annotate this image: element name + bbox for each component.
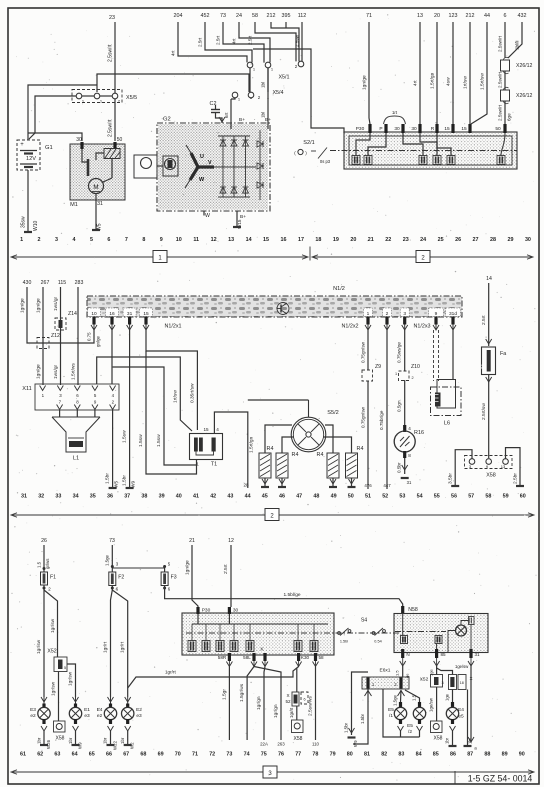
svg-text:2.5sw/ws: 2.5sw/ws	[308, 696, 314, 716]
svg-text:46: 46	[279, 494, 285, 500]
solder joint Z10	[395, 364, 420, 381]
svg-text:2.5sw/rt: 2.5sw/rt	[108, 44, 114, 62]
lamp E5/1	[388, 702, 407, 737]
svg-text:5: 5	[90, 237, 93, 243]
svg-text:90: 90	[519, 752, 525, 758]
wire N1/2x2 pin 2 to terminal 52	[379, 330, 391, 489]
lamp E1 e3	[69, 704, 90, 732]
svg-text:X52: X52	[47, 649, 56, 655]
section 2 dimension line with sheet box 2	[11, 509, 534, 521]
svg-text:e3: e3	[84, 713, 90, 719]
svg-text:60: 60	[520, 494, 526, 500]
wire lamp E2 to ground W2	[120, 731, 135, 749]
svg-text:R: R	[431, 126, 435, 132]
wire N1/2x2 pin 1 through Z9 to terminal 51	[361, 330, 373, 489]
svg-text:0.75gn/sw: 0.75gn/sw	[361, 406, 366, 428]
relay N58	[394, 606, 488, 653]
wire 21 to switch P30	[185, 545, 199, 607]
wire E6x1 pin 1 to ground W9 terminal 80	[344, 672, 369, 747]
svg-text:1gr/sw: 1gr/sw	[51, 681, 57, 696]
wire battery positive to starter and X5/5	[28, 74, 249, 141]
svg-text:44: 44	[484, 13, 490, 19]
wire 212 to ignition 15	[463, 22, 471, 124]
wire 123 to ignition 15	[446, 22, 454, 124]
svg-text:17: 17	[298, 237, 304, 243]
wire N1/2x1 15 to coil terminal 15	[138, 330, 197, 474]
svg-text:58L: 58L	[243, 655, 251, 660]
wire E6x1 to lamp E5/2	[405, 690, 420, 702]
svg-text:57: 57	[468, 494, 474, 500]
svg-text:1gn/ge: 1gn/ge	[20, 298, 26, 313]
svg-text:1.5bl: 1.5bl	[340, 640, 348, 644]
connector X52 middle	[285, 692, 308, 706]
svg-text:2.5rt: 2.5rt	[481, 315, 487, 325]
wire lamp E1 to ground W9	[68, 731, 83, 749]
wire K30 to connector X52 middle	[296, 668, 298, 692]
svg-text:/1: /1	[389, 713, 393, 719]
svg-text:1-5 GZ 54- 0014: 1-5 GZ 54- 0014	[468, 774, 533, 784]
svg-text:R4: R4	[317, 452, 324, 458]
svg-text:4: 4	[72, 237, 75, 243]
svg-text:Z12: Z12	[51, 333, 60, 339]
svg-text:74: 74	[244, 752, 250, 758]
control unit N1/2	[87, 286, 462, 317]
svg-text:L1: L1	[73, 456, 79, 462]
wire F2 branch to lamp E2	[112, 590, 130, 704]
svg-text:1br: 1br	[37, 737, 42, 744]
svg-text:P: P	[379, 126, 382, 132]
svg-text:212: 212	[466, 13, 475, 19]
svg-text:R16: R16	[414, 430, 424, 436]
svg-text:40: 40	[176, 494, 182, 500]
svg-text:432: 432	[518, 13, 527, 19]
svg-text:13: 13	[228, 237, 234, 243]
wire X52 to X58 pin 3	[51, 672, 59, 722]
svg-text:212: 212	[267, 13, 276, 19]
svg-text:1br: 1br	[68, 737, 73, 744]
svg-text:1.5: 1.5	[395, 670, 400, 676]
wire X5/5 to starter terminal 50	[108, 99, 116, 141]
svg-text:1gr/sw: 1gr/sw	[36, 639, 42, 654]
svg-text:F1: F1	[50, 575, 56, 581]
svg-text:37: 37	[124, 494, 130, 500]
svg-text:2.5rt: 2.5rt	[248, 35, 253, 45]
svg-text:15: 15	[263, 237, 269, 243]
svg-text:112: 112	[298, 13, 307, 19]
svg-text:2.5rt: 2.5rt	[198, 37, 203, 47]
svg-text:3.5br: 3.5br	[448, 473, 454, 484]
svg-text:1.5gr: 1.5gr	[222, 689, 228, 700]
svg-text:85: 85	[433, 752, 439, 758]
instrument S5/2	[291, 400, 339, 452]
wire N1/2x2 pin 3 through Z10 to R16	[397, 330, 405, 425]
section 1 dimension line with sheet boxes 1 and 2	[11, 247, 533, 263]
wire fuse Fa to X58 pin 9	[481, 375, 492, 459]
svg-text:204: 204	[174, 13, 183, 19]
svg-text:R4: R4	[267, 446, 274, 452]
wire 44 joining 15	[471, 22, 487, 124]
wire N1/2x3 pin 9 shielded pair to L6	[434, 326, 439, 381]
svg-text:N1/2x3: N1/2x3	[413, 324, 430, 330]
svg-text:Z9: Z9	[375, 364, 381, 370]
svg-text:6: 6	[303, 698, 305, 702]
svg-text:21: 21	[368, 237, 374, 243]
svg-text:N1/2: N1/2	[333, 286, 345, 292]
svg-text:2.5sw/rt: 2.5sw/rt	[108, 119, 114, 137]
svg-text:32: 32	[38, 494, 44, 500]
svg-text:47: 47	[296, 494, 302, 500]
svg-text:50: 50	[495, 126, 501, 132]
svg-text:2: 2	[38, 237, 41, 243]
svg-text:V: V	[208, 160, 212, 166]
wire 204 to X5/1	[171, 22, 248, 62]
svg-text:0s p3: 0s p3	[320, 159, 331, 164]
wire N1/2x3 pin 31d to L6	[452, 330, 454, 379]
wire 283 to X11 pin 6	[71, 287, 79, 385]
svg-text:1gr/gn: 1gr/gn	[256, 696, 262, 710]
svg-text:26: 26	[41, 538, 47, 544]
svg-text:52: 52	[382, 494, 388, 500]
svg-text:2.5sw/rt: 2.5sw/rt	[498, 35, 503, 52]
svg-text:263: 263	[277, 742, 285, 747]
alternator G2	[157, 117, 270, 212]
svg-text:e2: e2	[30, 713, 36, 719]
svg-text:16: 16	[281, 237, 287, 243]
svg-text:395: 395	[282, 13, 291, 19]
svg-text:4rt: 4rt	[232, 38, 237, 44]
wire X52 to X58 middle	[289, 706, 297, 720]
svg-text:1bl: 1bl	[261, 82, 266, 88]
wire X11 pin 5 to coil primary 1rt/sw	[97, 357, 192, 431]
connector X5/5	[72, 90, 137, 104]
svg-text:1bl: 1bl	[261, 112, 266, 118]
svg-text:5: 5	[64, 666, 66, 670]
svg-text:E4: E4	[458, 707, 464, 713]
svg-text:88: 88	[484, 752, 490, 758]
svg-text:73: 73	[109, 538, 115, 544]
connector X26/12 lower	[501, 87, 533, 103]
svg-text:0.54: 0.54	[374, 640, 381, 644]
alternator stator windings U V W	[185, 145, 214, 188]
svg-text:E5: E5	[388, 707, 394, 713]
svg-text:Fa: Fa	[500, 351, 506, 357]
svg-text:41: 41	[193, 494, 199, 500]
svg-text:1.5sw: 1.5sw	[122, 430, 128, 443]
svg-text:34: 34	[73, 494, 79, 500]
wire X58 pin 13 to ground terminal 60	[506, 448, 525, 486]
svg-text:2: 2	[411, 376, 413, 380]
svg-text:43: 43	[227, 494, 233, 500]
svg-text:X52: X52	[420, 677, 429, 683]
svg-text:1gr/rt: 1gr/rt	[103, 641, 109, 653]
svg-text:15: 15	[143, 311, 149, 317]
svg-text:0.75: 0.75	[87, 332, 92, 341]
wire F1 branch to X52	[44, 590, 58, 657]
svg-text:F2: F2	[118, 575, 124, 581]
svg-text:1gn/ge: 1gn/ge	[362, 75, 368, 90]
wire X 18 to ground	[464, 690, 473, 747]
svg-text:+: +	[20, 142, 24, 148]
wire N58 31 to terminal 87	[468, 666, 477, 751]
section 3 dimension line with sheet box 3	[11, 766, 534, 778]
solder joint Z12	[37, 333, 60, 349]
wire lamp E4 e5 to ground	[445, 731, 457, 746]
wire F1 to lamp E3	[36, 590, 47, 704]
svg-text:E6x1: E6x1	[380, 668, 391, 674]
sensor R16	[394, 425, 424, 458]
svg-text:123: 123	[449, 13, 458, 19]
wire X5/1 to X5/4 and B+ drops	[231, 68, 268, 99]
svg-text:59: 59	[503, 494, 509, 500]
svg-text:71: 71	[192, 752, 198, 758]
svg-text:27: 27	[473, 237, 479, 243]
lamp E5/2	[407, 702, 426, 737]
svg-text:1.5: 1.5	[412, 694, 417, 701]
svg-text:gn/ge: gn/ge	[96, 335, 101, 347]
resistor R4 a	[259, 425, 292, 487]
wire X52 branch to lamp E1	[67, 664, 79, 704]
svg-text:30: 30	[233, 608, 239, 614]
wire 14 to fuse Fa	[481, 283, 492, 346]
svg-text:1: 1	[395, 372, 397, 376]
wire alternator W stub	[203, 211, 205, 216]
svg-text:W10: W10	[33, 221, 39, 232]
svg-text:1gr/sw: 1gr/sw	[50, 618, 56, 633]
svg-text:8: 8	[408, 453, 411, 458]
svg-text:54: 54	[417, 494, 423, 500]
svg-text:64: 64	[72, 752, 78, 758]
lamp inside N58	[448, 617, 474, 653]
svg-text:1gn/ge: 1gn/ge	[36, 298, 42, 313]
resistor R4 d	[323, 437, 363, 487]
svg-text:1: 1	[367, 311, 370, 317]
svg-text:P30: P30	[202, 608, 211, 614]
wire 71 to P30	[362, 22, 371, 124]
resistor R4 b	[276, 437, 298, 487]
svg-text:14: 14	[246, 237, 252, 243]
svg-text:W: W	[205, 213, 210, 219]
wire alternator B+ up 1bl	[261, 68, 269, 129]
svg-text:39: 39	[159, 494, 165, 500]
section 3 terminal number row 61-90	[20, 752, 525, 758]
svg-text:1rt/sw: 1rt/sw	[173, 390, 179, 403]
svg-text:430: 430	[23, 280, 32, 286]
wire 115 through Z14 to X11 pin 3	[53, 287, 61, 385]
svg-text:89: 89	[502, 752, 508, 758]
svg-text:1br: 1br	[103, 737, 108, 744]
svg-text:85: 85	[440, 652, 446, 657]
wire X5/1 area to ignition 30 feed	[253, 49, 344, 133]
svg-text:X26/12: X26/12	[516, 93, 533, 99]
svg-text:58R: 58R	[218, 655, 227, 660]
svg-text:1ge/sw: 1ge/sw	[429, 697, 434, 712]
wire 6 with inline connectors X26/12	[498, 22, 506, 58]
connector X52 right	[420, 675, 444, 688]
svg-text:82: 82	[381, 752, 387, 758]
wire K to terminal 75	[256, 667, 268, 747]
svg-text:61: 61	[20, 752, 26, 758]
svg-text:30: 30	[525, 237, 531, 243]
svg-text:66: 66	[106, 752, 112, 758]
svg-text:N58: N58	[408, 607, 418, 613]
wire R16 to ground terminal 53	[397, 458, 412, 485]
svg-text:51: 51	[365, 494, 371, 500]
svg-text:77: 77	[295, 752, 301, 758]
svg-text:E4: E4	[97, 707, 103, 713]
wire 13 to ignition 30	[413, 22, 421, 124]
svg-text:X58: X58	[486, 473, 496, 479]
lamp E4 e5	[446, 702, 464, 731]
svg-text:Z14: Z14	[68, 311, 77, 317]
transistor symbol inside N1/2	[277, 303, 289, 315]
svg-text:gr/ws: gr/ws	[45, 558, 50, 569]
svg-text:69: 69	[158, 752, 164, 758]
svg-text:T1: T1	[211, 462, 217, 468]
svg-text:283: 283	[75, 280, 84, 286]
svg-text:M: M	[93, 184, 98, 191]
ignition coil T1	[190, 427, 223, 468]
svg-text:3: 3	[403, 311, 406, 317]
alternator rotor slip rings	[134, 155, 178, 178]
svg-text:2.5rt/sw: 2.5rt/sw	[481, 403, 487, 420]
svg-text:14: 14	[486, 276, 492, 282]
wire S5/2 to coil wire junction	[248, 399, 309, 401]
wire 112 to X5/1 pin 2	[295, 22, 303, 61]
wire K30 to lamp E2 run	[128, 667, 299, 689]
wire X11 pin 2 to ground terminal 36	[105, 410, 120, 488]
branch node 6 after F2	[111, 586, 119, 592]
svg-text:1.5br: 1.5br	[344, 722, 349, 733]
svg-text:87: 87	[467, 752, 473, 758]
svg-text:28: 28	[243, 483, 249, 488]
svg-text:2.5br: 2.5br	[513, 473, 519, 484]
wire 58 to X5/1 pin 2	[248, 22, 297, 61]
svg-text:9: 9	[435, 311, 438, 317]
svg-text:0.75br/ge: 0.75br/ge	[379, 410, 384, 430]
svg-text:K30: K30	[301, 655, 310, 660]
connector X26/12 upper	[501, 57, 533, 73]
svg-text:M1: M1	[70, 202, 78, 208]
svg-text:55: 55	[434, 494, 440, 500]
wire N58 85 to connector X52 right	[429, 666, 437, 676]
wire link F2 to F3	[112, 567, 164, 569]
wire 212 to X5/1 pin 2	[271, 22, 299, 61]
svg-text:62: 62	[37, 752, 43, 758]
wire F3 to relay N58 1.5bl/ge	[165, 586, 403, 608]
svg-text:1: 1	[20, 237, 23, 243]
svg-text:Z10: Z10	[411, 364, 420, 370]
svg-text:8: 8	[142, 237, 145, 243]
wire lamp return bus	[383, 689, 420, 737]
svg-text:36: 36	[107, 494, 113, 500]
wire F2 to lamp E4	[103, 590, 114, 704]
connector X58 right	[431, 721, 443, 742]
svg-text:E1: E1	[84, 707, 90, 713]
wire E6x1 pin 2 to lamp E5/1	[393, 690, 402, 706]
svg-text:1br: 1br	[120, 737, 125, 744]
svg-text:1.5br: 1.5br	[360, 713, 365, 724]
svg-text:1.5ge: 1.5ge	[105, 554, 110, 566]
svg-text:476: 476	[364, 483, 372, 488]
svg-text:1.5sw: 1.5sw	[138, 434, 144, 447]
svg-text:4: 4	[408, 426, 411, 431]
svg-text:48: 48	[313, 494, 319, 500]
wire lamp E4 to ground W22	[103, 731, 118, 750]
svg-text:84: 84	[416, 752, 422, 758]
svg-text:81: 81	[364, 752, 370, 758]
svg-text:P30: P30	[356, 126, 365, 132]
wire lamp E3 to ground W26	[37, 731, 52, 749]
svg-text:1.5gr/ws: 1.5gr/ws	[239, 683, 245, 702]
svg-text:N1/2x2: N1/2x2	[341, 324, 358, 330]
svg-text:0.75gn/sw: 0.75gn/sw	[361, 341, 366, 363]
svg-text:1.5rt/gn: 1.5rt/gn	[430, 72, 436, 89]
svg-text:73: 73	[226, 752, 232, 758]
svg-text:19: 19	[333, 237, 339, 243]
relay N58 output terminals N 85 31	[400, 649, 480, 666]
wire starter 31 to ground W5	[92, 194, 103, 232]
svg-text:N: N	[406, 652, 409, 657]
svg-text:15: 15	[461, 126, 467, 132]
svg-text:267: 267	[41, 280, 50, 286]
wire X 7 to lamp E4 e5	[445, 690, 453, 703]
svg-text:R4: R4	[292, 452, 299, 458]
svg-text:X58: X58	[294, 736, 303, 742]
svg-text:3: 3	[55, 237, 58, 243]
svg-text:31: 31	[474, 652, 480, 657]
wire N1/2x1 16 to X11 pin 4 and coil terminal 1	[112, 330, 197, 465]
svg-text:12: 12	[228, 538, 234, 544]
wire battery negative to terminal 1 with ground W10	[21, 170, 40, 232]
svg-text:1.5br: 1.5br	[122, 475, 128, 486]
svg-text:44: 44	[245, 494, 251, 500]
svg-text:86: 86	[450, 752, 456, 758]
svg-text:1ws/gr: 1ws/gr	[53, 296, 59, 311]
svg-text:0.35rt/sw: 0.35rt/sw	[190, 383, 196, 403]
svg-text:42: 42	[210, 494, 216, 500]
wire alternator B+ up 6rt	[224, 99, 231, 129]
wire X52 right to X58 right	[429, 687, 437, 721]
svg-text:80: 80	[347, 752, 353, 758]
svg-text:1gr/rt: 1gr/rt	[289, 707, 294, 718]
svg-text:X5/4: X5/4	[272, 90, 283, 96]
svg-text:B+: B+	[239, 117, 245, 123]
wire X26/12 to ignition 50	[498, 101, 512, 124]
svg-text:6ge: 6ge	[507, 113, 512, 121]
svg-text:1.5rt/ws: 1.5rt/ws	[71, 363, 77, 380]
svg-text:52: 52	[285, 699, 291, 704]
lamp E4 e2	[97, 704, 117, 732]
lamp E3 e2	[30, 704, 50, 732]
svg-text:33: 33	[55, 494, 61, 500]
svg-text:63: 63	[54, 752, 60, 758]
svg-text:24: 24	[236, 13, 242, 19]
svg-text:e5: e5	[458, 714, 464, 720]
svg-text:8A: 8A	[480, 364, 485, 369]
svg-text:23: 23	[109, 15, 115, 21]
light switch contacts	[188, 624, 318, 652]
svg-text:30: 30	[411, 126, 417, 132]
svg-text:1.5bl/ge: 1.5bl/ge	[283, 592, 300, 598]
svg-text:38: 38	[141, 494, 147, 500]
starter motor M1	[70, 137, 125, 208]
wire 26 to fuse F1	[37, 545, 51, 572]
svg-text:0.75ws/ge: 0.75ws/ge	[397, 342, 402, 363]
svg-text:31: 31	[97, 201, 103, 207]
svg-text:24: 24	[420, 237, 426, 243]
svg-text:e3: e3	[136, 713, 142, 719]
title block 1-5 GZ 54-0014	[455, 771, 532, 784]
